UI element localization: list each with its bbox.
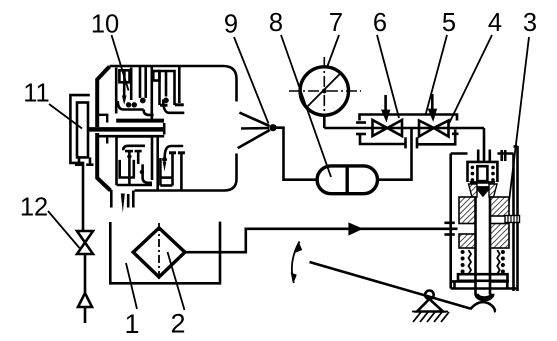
return spring left (dots and coil): [461, 250, 505, 274]
exhaust arrowhead (open): [78, 293, 92, 307]
flow arrowhead on pipe: [348, 222, 363, 235]
compressor intake legs: [111, 190, 133, 208]
cell B dot: [163, 98, 169, 104]
main pipe through valves: [324, 127, 484, 130]
leader line 7: [328, 35, 340, 66]
compressor cylinder cell D (bottom-right): [158, 136, 185, 190]
pivot support triangle: [417, 299, 443, 312]
junction node dot: [269, 124, 276, 131]
svg-text:8: 8: [269, 9, 283, 37]
pressure regulator 11 outer bracket: [70, 95, 89, 170]
chamber rod: [476, 197, 491, 295]
receiver 8 (capsule tank): [317, 166, 377, 194]
spring zigzag left: [469, 250, 472, 274]
valve 6 bowtie: [373, 120, 403, 136]
regulator feet: [75, 157, 94, 164]
ground hatching: [412, 312, 449, 323]
hatched collar left of poppet: [469, 184, 478, 197]
filter axis dash-dot: [158, 223, 160, 282]
valve 5 bottom bracket: [416, 137, 419, 148]
lever swing arc arrow: [292, 242, 300, 284]
discharge nozzle (crow's foot): [238, 113, 270, 149]
hatched collar right of poppet: [489, 184, 497, 197]
air tank 1 (open-top box): [110, 222, 220, 284]
valve 6 bottom bracket: [360, 134, 406, 144]
chamber valve box: [468, 162, 498, 182]
valve 5 bowtie: [419, 121, 449, 137]
leader line 1: [126, 263, 137, 309]
pressure gauge 7: [300, 67, 348, 115]
gauge needle: [307, 72, 342, 107]
leader line 12: [48, 211, 80, 248]
svg-text:6: 6: [373, 9, 387, 37]
compressor intake arrow (filled spike): [121, 194, 125, 214]
spring seat plate: [458, 274, 508, 281]
valve 5 actuation arrow: [431, 94, 434, 109]
cell D blob and spike: [162, 157, 167, 162]
brake pedal lever: [310, 262, 471, 309]
cell A valve dots: [126, 102, 131, 107]
svg-text:9: 9: [224, 11, 238, 39]
svg-text:7: 7: [329, 9, 343, 37]
svg-text:3: 3: [523, 9, 537, 37]
svg-text:12: 12: [20, 194, 48, 222]
adjusting screw (striped): [505, 216, 520, 223]
compressor cylinder cell C (bottom-left): [117, 137, 153, 186]
chamber bottom plate: [452, 281, 509, 288]
gauge crosshair dash-dot: [289, 57, 361, 125]
compressor cylinder cell B (top-middle): [152, 67, 185, 119]
piston hatched block right: [490, 197, 509, 248]
svg-text:4: 4: [488, 9, 502, 37]
pipe from receiver to valves riser: [378, 128, 412, 180]
leader line 9: [234, 37, 269, 124]
union on chamber inlet: [478, 150, 505, 162]
compressor cylinder cell A (top-left): [116, 68, 164, 121]
pipe from filter to chamber: [185, 229, 458, 252]
union before valve 6: [356, 123, 366, 135]
leader line 3: [507, 37, 529, 218]
svg-text:11: 11: [23, 80, 49, 108]
svg-text:5: 5: [442, 9, 456, 37]
compressor channel between cells A and B: [140, 66, 146, 98]
cell A valve spike: [122, 96, 127, 106]
pivot pin: [425, 291, 434, 300]
filter 2 (diamond): [133, 228, 185, 277]
svg-text:10: 10: [91, 11, 119, 39]
channel A-B dot: [140, 98, 146, 104]
inlet union on chamber left: [444, 223, 454, 235]
leader line 5: [426, 35, 448, 115]
pipe down to brake chamber: [483, 128, 486, 162]
valve box spring dots: [471, 166, 495, 182]
brake chamber 3 housing: [451, 146, 518, 291]
safety valve 12 (vertical bowtie): [77, 231, 93, 254]
pipe from regulator down to safety valve 12: [82, 170, 85, 231]
cell C blobs: [127, 154, 131, 158]
gauge stub to pipe: [323, 115, 326, 128]
pipe from junction down to receiver: [276, 128, 317, 180]
lever fork end: [470, 302, 495, 312]
valve box port: [477, 166, 487, 181]
compressor 10 body outline: [97, 66, 236, 191]
leader line 10: [112, 35, 129, 91]
valve seat bar: [471, 182, 493, 187]
valve 6 actuation arrow: [384, 95, 387, 110]
leader line 6: [377, 35, 399, 118]
pipe stub below arrowhead: [84, 307, 87, 323]
valve poppet (filled triangle): [475, 187, 491, 197]
top bypass line over valves: [360, 115, 458, 121]
compressor mid divider channel: [88, 115, 164, 144]
push rod cap (filled crescent): [474, 294, 494, 302]
leader line 4: [449, 35, 492, 124]
leader line 8: [281, 35, 331, 177]
svg-text:1: 1: [124, 309, 139, 339]
piston hatched block left: [459, 197, 476, 248]
pipe below valve 12: [84, 254, 87, 293]
svg-text:2: 2: [170, 309, 185, 339]
leader line 11: [49, 104, 82, 129]
spring zigzag right: [497, 250, 500, 274]
compressor top-row pin: [175, 66, 184, 105]
pressure regulator 11 inner body: [77, 103, 88, 158]
leader line 2: [168, 252, 185, 310]
